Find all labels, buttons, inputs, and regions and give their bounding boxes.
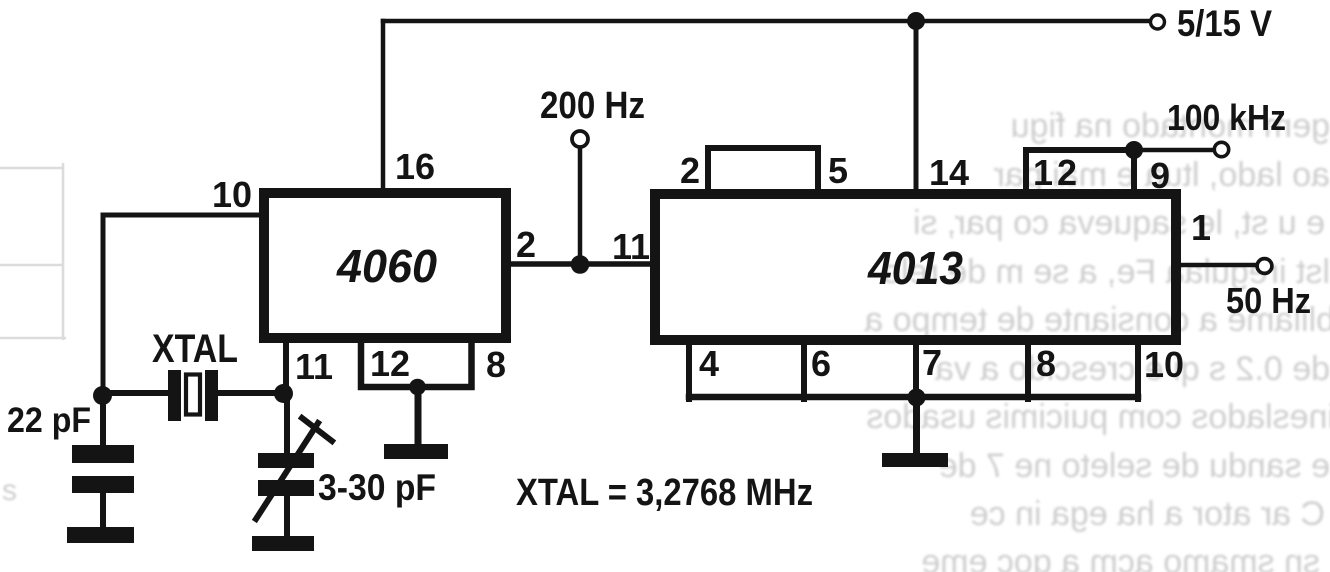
svg-text:5/15 V: 5/15 V: [1177, 3, 1272, 44]
svg-text:4: 4: [699, 343, 719, 384]
svg-text:1: 1: [1191, 207, 1211, 248]
svg-text:6: 6: [811, 343, 831, 384]
svg-text:100 kHz: 100 kHz: [1167, 97, 1286, 138]
svg-text:12: 12: [370, 343, 410, 384]
svg-text:10: 10: [212, 174, 252, 215]
svg-text:8: 8: [486, 344, 506, 385]
svg-text:11: 11: [295, 346, 333, 387]
svg-text:16: 16: [395, 146, 435, 187]
svg-text:4060: 4060: [336, 240, 437, 292]
svg-text:50 Hz: 50 Hz: [1226, 280, 1311, 321]
svg-text:9: 9: [1150, 155, 1170, 196]
svg-text:3-30 pF: 3-30 pF: [318, 467, 436, 508]
svg-text:8: 8: [1036, 343, 1056, 384]
svg-text:200 Hz: 200 Hz: [540, 85, 645, 127]
svg-text:sn smamo acm a goc eme: sn smamo acm a goc eme: [921, 543, 1320, 572]
svg-text:2: 2: [680, 150, 700, 191]
svg-text:5: 5: [828, 150, 848, 191]
svg-text:11: 11: [612, 226, 650, 267]
svg-text:XTAL = 3,2768 MHz: XTAL = 3,2768 MHz: [516, 472, 813, 514]
svg-text:s: s: [2, 474, 17, 507]
svg-text:C ar ator a ha ega in ce: C ar ator a ha ega in ce: [970, 495, 1325, 533]
svg-text:2: 2: [516, 224, 536, 265]
svg-text:XTAL: XTAL: [152, 327, 238, 371]
svg-text:e u st, le saqueva co par,: e u st, le saqueva co par, si: [913, 204, 1325, 242]
svg-text:10: 10: [1144, 344, 1184, 385]
svg-text:4013: 4013: [867, 242, 963, 294]
svg-text:7: 7: [922, 342, 942, 383]
svg-text:e sandu de seleto ne 7 de: e sandu de seleto ne 7 de: [939, 447, 1330, 485]
svg-text:14: 14: [929, 152, 969, 193]
svg-text:ineslados com puicimis usados: ineslados com puicimis usados: [866, 398, 1330, 436]
svg-text:22 pF: 22 pF: [7, 401, 91, 440]
svg-text:de 0.2 s qi e crescido a va: de 0.2 s qi e crescido a va: [935, 350, 1330, 388]
